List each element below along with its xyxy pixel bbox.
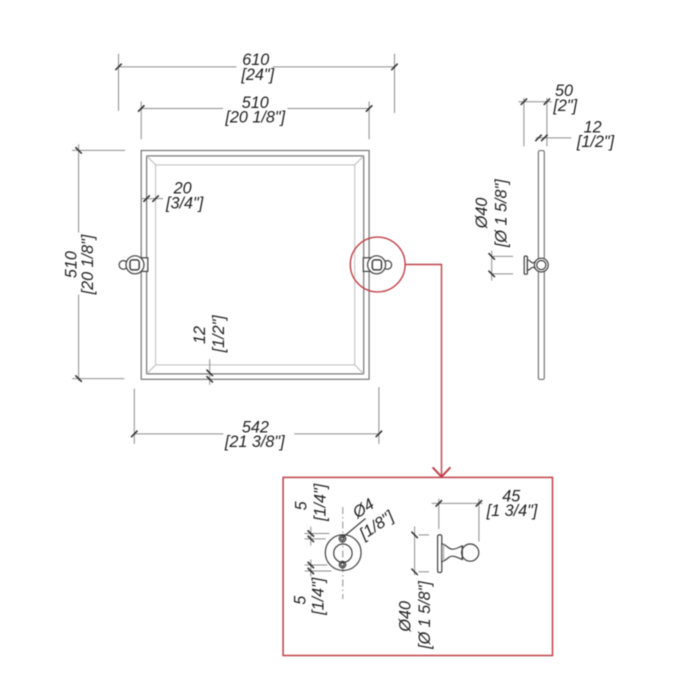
svg-text:[1 3/4"]: [1 3/4"] (486, 502, 538, 520)
svg-text:[1/4"]: [1/4"] (310, 577, 328, 616)
front view mirror: bevel rect (20mm bevel, light line) (156, 165, 355, 365)
svg-text:[24"]: [24"] (240, 66, 274, 84)
front view mirror: inner frame rect (12mm face) (147, 156, 364, 374)
dimension 12 side text (576, 118, 615, 151)
red arrowhead chevron (433, 467, 451, 477)
dimension D40 side: lines, extensions, ticks (489, 251, 514, 281)
left pivot knob: wall plate (141, 258, 148, 272)
svg-text:[21 3/8"]: [21 3/8"] (224, 433, 285, 451)
dimension 610 text (240, 51, 274, 84)
detail mount: top screw (339, 536, 346, 543)
detail dimension 45: lines, extensions, ticks (432, 499, 483, 542)
detail knob: flange plate (438, 535, 442, 573)
svg-text:[3/4"]: [3/4"] (165, 194, 204, 212)
side view knob: inner circle (537, 261, 546, 270)
dimension D40 side text (rotated) (473, 179, 511, 248)
dimension 610 overall width: lines, extensions, ticks (115, 54, 397, 113)
right pivot knob: ball tip (383, 261, 392, 270)
svg-text:Ø40: Ø40 (397, 601, 415, 633)
svg-text:12: 12 (191, 326, 209, 344)
dimension 20 text (165, 180, 204, 213)
detail dimension 5 bottom text (rotated) (291, 577, 327, 616)
detail label D4: leader line (343, 519, 365, 538)
detail dimension 5 bottom: lines, extensions, ticks (305, 560, 332, 577)
svg-text:510: 510 (62, 251, 80, 278)
detail mount: bottom screw (339, 561, 346, 568)
dimension 510 left height: lines, extensions, ticks (72, 144, 125, 381)
red detail callout circle (350, 237, 405, 292)
dimension 510 left text (rotated) (62, 234, 97, 295)
svg-text:Ø40: Ø40 (473, 198, 491, 230)
detail dimension 5 top: lines, extensions, ticks (304, 527, 329, 546)
svg-text:[2"]: [2"] (552, 97, 577, 115)
svg-text:[20 1/8"]: [20 1/8"] (224, 108, 285, 126)
dimension 50 text (552, 82, 577, 115)
dimension 12 bottom frame: line and ticks (207, 359, 213, 385)
detail knob: neck (442, 544, 463, 562)
detail mount: flange circle (325, 535, 361, 571)
dimension 12 bottom text (rotated) (191, 315, 228, 354)
svg-text:[1/2"]: [1/2"] (576, 133, 615, 151)
svg-text:5: 5 (292, 500, 310, 510)
svg-text:[Ø 1 5/8"]: [Ø 1 5/8"] (492, 179, 510, 248)
dimension 12 side thickness: line, ticks (535, 135, 571, 141)
svg-text:[Ø 1 5/8"]: [Ø 1 5/8"] (416, 581, 434, 650)
side view knob: flange plate (524, 256, 527, 274)
detail mount: inner circle (334, 544, 352, 562)
detail label D4 text (rotated -34) (349, 495, 398, 544)
red detail box (283, 477, 552, 655)
side view: mirror bar (538, 151, 544, 380)
left pivot knob: flange circle (126, 256, 144, 274)
left pivot knob: square neck (130, 260, 139, 270)
detail dimension 45 text (486, 488, 538, 521)
dimension 510 top text (224, 94, 285, 127)
dimension 50 depth: lines, extensions, ticks (518, 98, 551, 146)
front view mirror: bevel miter diagonals (147, 156, 364, 374)
detail dimension D40: lines, extensions, ticks (411, 526, 429, 575)
side view knob: outer circle (534, 258, 548, 272)
front view mirror: outer frame rect (141, 151, 369, 380)
dimension 542 bottom width: lines, extensions, ticks (131, 387, 382, 444)
svg-text:[1/4"]: [1/4"] (311, 483, 329, 522)
svg-text:5: 5 (291, 595, 309, 605)
svg-text:[1/2"]: [1/2"] (210, 315, 228, 354)
red leader line (405, 265, 441, 476)
right pivot knob: wall plate (363, 258, 370, 272)
svg-text:[20 1/8"]: [20 1/8"] (79, 234, 97, 295)
detail dimension 5 top text (rotated) (292, 483, 329, 522)
dimension 510 top width: lines, extensions, ticks (138, 102, 372, 140)
dimension 542 text (224, 418, 285, 451)
detail knob: ball (462, 544, 479, 561)
dimension 20 bevel width: line and ticks (141, 195, 163, 201)
left pivot knob: ball tip (119, 261, 128, 270)
side view knob: neck (527, 260, 535, 271)
right pivot knob: square neck (372, 260, 381, 270)
detail dimension D40 text (rotated) (397, 581, 434, 650)
detail mount: dashed centerline (342, 507, 344, 599)
right pivot knob: flange circle (368, 256, 386, 274)
